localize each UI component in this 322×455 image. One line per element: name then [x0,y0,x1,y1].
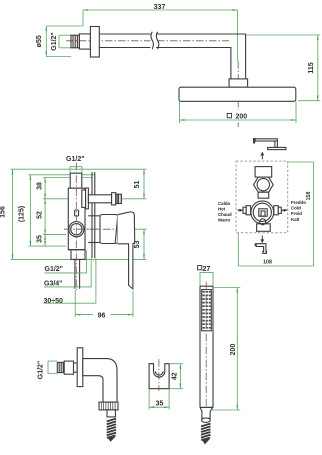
collar [79,34,90,49]
green extension lines [11,168,147,170]
elbow wall plate [77,348,83,387]
label G3/4 [44,258,91,287]
dim (125) [19,175,31,246]
outlet tube [88,195,111,203]
up arrow [260,152,264,160]
svg-text:42: 42 [171,372,178,380]
handle stem [88,215,100,217]
dashed trim box [236,161,288,233]
svg-text:52: 52 [37,211,44,219]
dim 115 [246,35,320,101]
hex nut [254,177,274,192]
outlet junction [82,190,86,207]
svg-text:Hot: Hot [218,206,226,211]
svg-text:156: 156 [0,206,7,218]
hot labels [218,201,232,223]
dim square 200 [180,102,297,124]
svg-text:Caldo: Caldo [218,201,231,206]
holder centerline [158,359,160,391]
label G1/2 lower [45,250,87,273]
svg-text:337: 337 [154,4,166,11]
valve front view [238,167,287,232]
label G1/2 [38,361,58,380]
svg-text:35: 35 [156,401,164,408]
svg-text:108: 108 [263,260,272,266]
label G1/2 top [66,156,85,173]
arm centerline [66,40,229,42]
svg-text:200: 200 [235,114,247,121]
svg-text:51: 51 [134,181,141,189]
svg-text:115: 115 [308,62,315,73]
down arrow [260,236,264,244]
bottom port [257,224,271,232]
cartridge [260,219,266,225]
elbow body [83,359,117,403]
label square 27 [198,266,213,286]
holder bracket [149,364,169,389]
svg-text:Freddo: Freddo [291,200,306,205]
dim 53 [134,229,144,259]
label 30-50 [44,258,96,305]
pipe break symbol [150,32,158,49]
thread nipple [71,35,79,48]
shower head [179,87,296,101]
dim 51 [134,169,144,199]
handshower cone [200,407,213,418]
right inlet arrow [281,209,287,212]
elbow hose connector [107,410,115,417]
body circle [251,201,274,224]
neck [258,192,269,198]
wall flange [90,27,99,58]
spray face [202,290,212,331]
svg-text:Froid: Froid [291,211,302,216]
svg-text:Chaud: Chaud [218,212,232,217]
cold labels [291,200,306,222]
handle lever [118,212,135,289]
label G1/2 arm [51,32,71,51]
svg-text:G1/2": G1/2" [51,32,58,51]
dims 38/52/35 [37,178,46,247]
svg-text:30÷50: 30÷50 [44,298,64,305]
handshower handle [200,286,213,407]
svg-text:53: 53 [134,241,141,249]
svg-text:(125): (125) [19,206,26,222]
mini elbow icon [255,243,266,253]
svg-text:Cold: Cold [291,206,301,211]
dim 96 [75,290,133,319]
svg-text:G1/2": G1/2" [66,156,85,163]
svg-text:G1/2": G1/2" [45,266,64,273]
right port [274,206,279,215]
connector nut [229,79,248,87]
dim 200 [211,288,241,411]
handshower centerline [205,282,207,415]
dim 35 [149,389,169,410]
green wall box [238,162,313,266]
svg-text:96: 96 [98,312,106,319]
dim 42 [169,364,183,389]
svg-text:ø55: ø55 [36,35,43,47]
dim diam 55 [36,26,83,57]
svg-text:G3/4": G3/4" [44,280,63,287]
svg-text:38: 38 [37,182,44,190]
handshower hose coil [201,424,211,441]
valve circle [69,222,84,237]
mini shower icon [253,138,286,149]
elbow thread nipple [57,362,64,372]
svg-text:35: 35 [37,235,44,243]
head pipe centerline [237,61,239,110]
left inlet arrow [238,209,244,212]
shower arm [99,34,245,79]
trim plate edge-on [91,172,93,258]
dim 337 [83,4,238,61]
mixer horiz centerline through circle [64,228,116,230]
svg-text:200: 200 [230,344,237,356]
outlet nut [112,193,116,205]
svg-text:G1/2": G1/2" [38,361,45,380]
elbow hose nut [99,402,118,410]
outlet nipple [116,194,122,203]
set screw [75,210,79,216]
svg-text:Kalt: Kalt [291,217,300,222]
mixer vertical centerline [75,163,77,291]
valve body [68,188,85,250]
green ext for 53 (behind handle) [88,228,147,230]
svg-text:27: 27 [203,266,211,273]
elbow hose coil [107,419,116,438]
dim 156 [0,169,13,259]
valve vertical pipe [70,173,82,188]
bottom outlet pipe [71,250,85,260]
left port [246,206,251,215]
top port [255,167,272,178]
elbow collar [64,361,73,374]
svg-text:158: 158 [306,192,312,201]
supply stub [75,259,80,288]
handle base [100,215,118,244]
svg-text:Warm: Warm [218,218,230,223]
